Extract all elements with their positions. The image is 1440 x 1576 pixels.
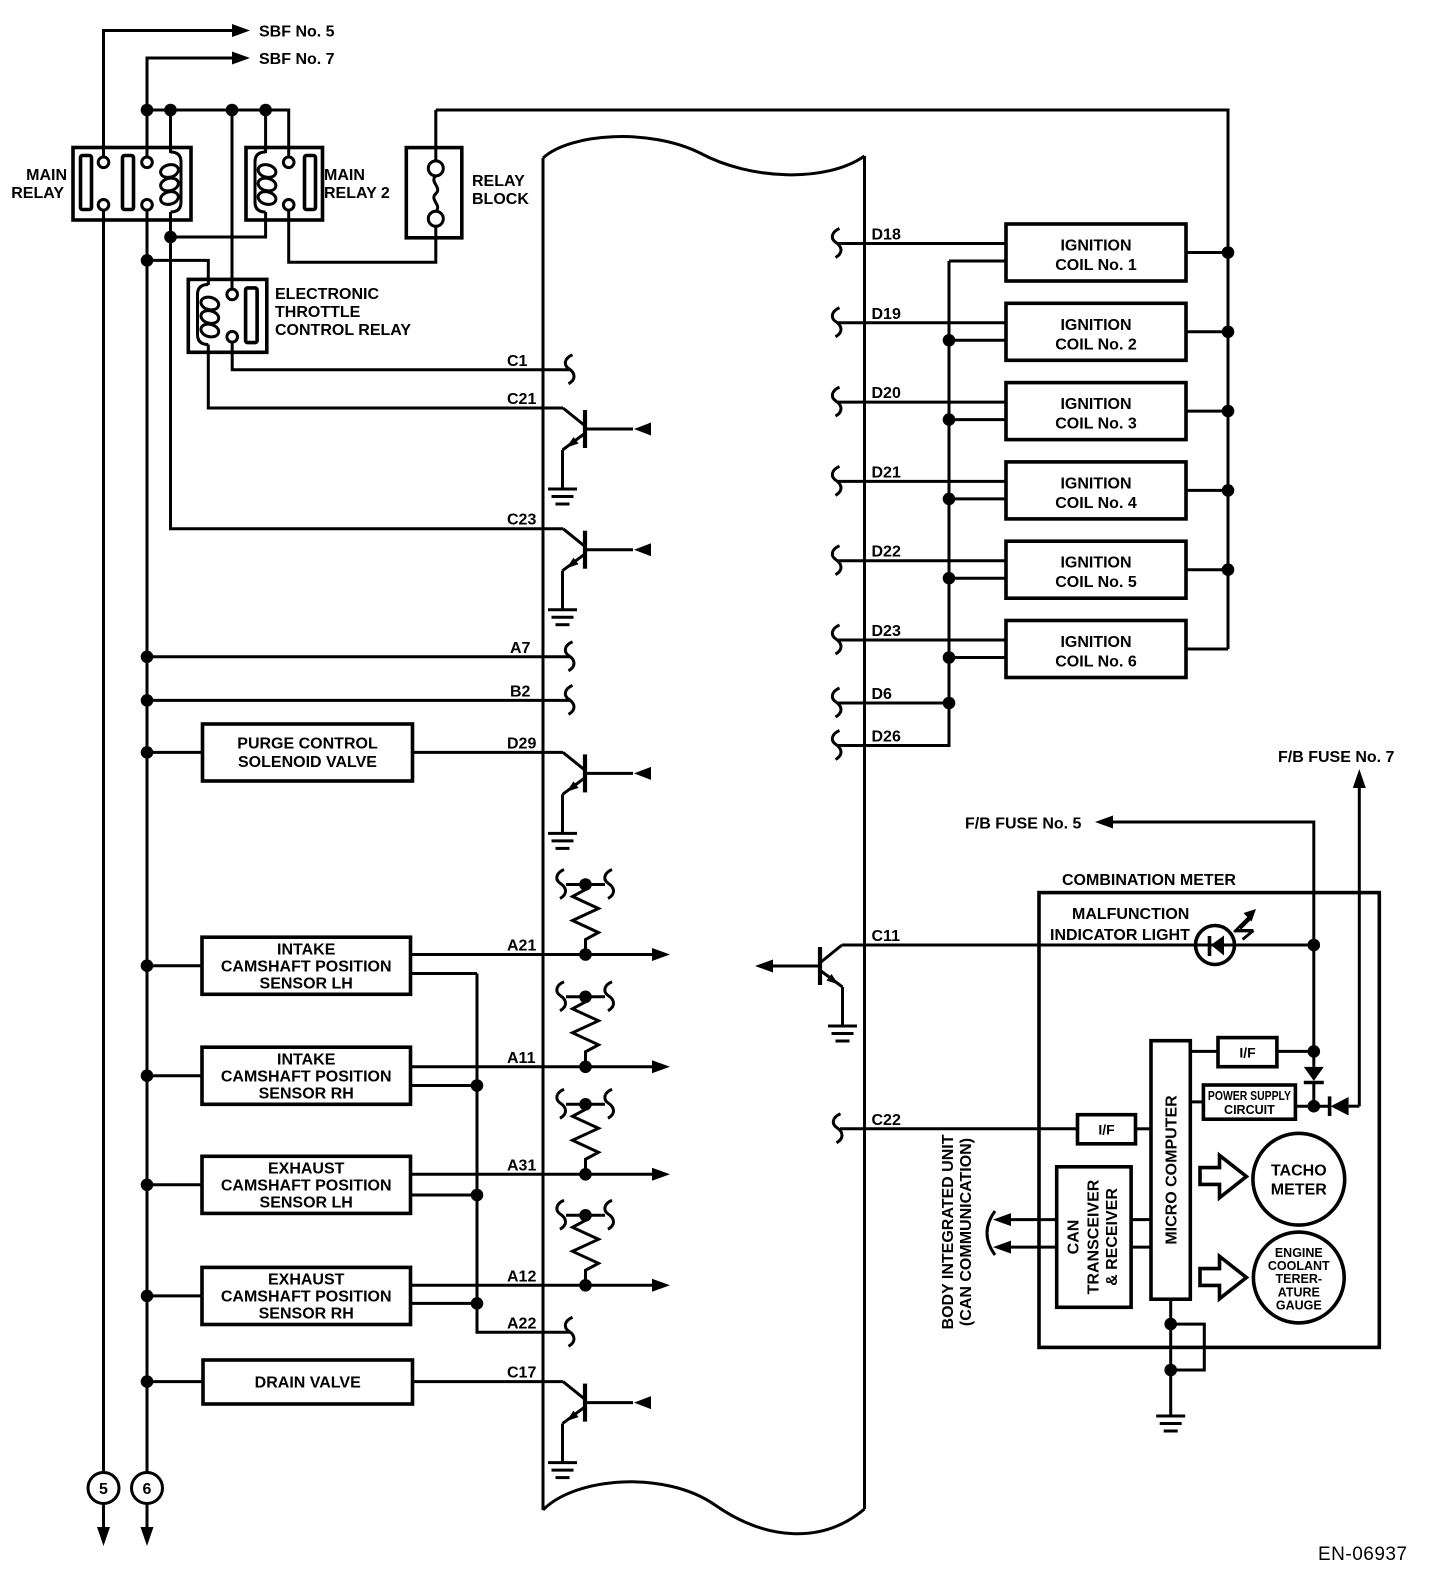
power bus 5 (left) [102, 210, 105, 1472]
connector break A22 [565, 1317, 574, 1346]
wire supply to ignition coil No. 6 [949, 656, 1006, 659]
junction main relay coil [164, 104, 177, 117]
wire main relay 2 coil feed [264, 110, 267, 153]
connector break D23 [832, 625, 841, 654]
wire supply to ignition coil No. 4 [949, 497, 1006, 500]
junction right rail [1222, 326, 1235, 339]
resistor R-A21 pull-up with connector breaks [557, 870, 614, 961]
connector break B2 [565, 685, 574, 714]
wire junction to main relay 2 coil bottom [171, 212, 266, 237]
svg-text:D23: D23 [872, 623, 901, 640]
transistor Q1 (C21 driver) [563, 408, 652, 489]
svg-text:INDICATOR LIGHT: INDICATOR LIGHT [1050, 927, 1190, 944]
main relay pin circle top-left [98, 157, 109, 168]
resistor R-A31 pull-up with connector breaks [557, 1089, 614, 1180]
ignition coil No. 3 box [1006, 383, 1186, 440]
micro computer box [1151, 1041, 1190, 1300]
wire main relay coil feed [169, 110, 172, 153]
power bus 6 [146, 210, 149, 1472]
main relay coil [159, 152, 181, 212]
ground of Q4 (C17 driver) [548, 1463, 577, 1478]
connector 6 symbol [132, 1473, 163, 1547]
svg-text:F/B FUSE No. 5: F/B FUSE No. 5 [965, 816, 1082, 833]
main relay pin circle bottom-left [98, 200, 109, 211]
wire bus6 to exhaust camshaft position sensor LH [147, 1183, 202, 1186]
wire exhaust camshaft position sensor LH ground return [411, 1194, 478, 1197]
svg-text:D22: D22 [872, 544, 901, 561]
wire ignition coil No. 4 to right rail [1186, 489, 1228, 492]
connector break D18 [832, 229, 841, 258]
diode D1 (down) [1304, 1067, 1324, 1106]
wire CAN bus out 2 [1009, 1246, 1057, 1249]
svg-text:POWER SUPPLY: POWER SUPPLY [1208, 1089, 1292, 1103]
svg-text:A7: A7 [510, 640, 531, 657]
svg-text:EXHAUST: EXHAUST [268, 1271, 345, 1288]
intake camshaft position sensor RH box [202, 1047, 411, 1104]
ignition coil No. 1 box [1006, 224, 1186, 281]
junction right rail [1222, 484, 1235, 497]
svg-text:GAUGE: GAUGE [1276, 1299, 1322, 1313]
svg-text:COIL No. 4: COIL No. 4 [1055, 495, 1137, 512]
wire exhaust camshaft position sensor RH ground return [411, 1302, 478, 1305]
svg-text:COIL No. 1: COIL No. 1 [1055, 257, 1137, 274]
wire bus6 to exhaust camshaft position sensor RH [147, 1294, 202, 1297]
relay block fuse circle top [428, 161, 443, 176]
svg-text:RELAY: RELAY [11, 185, 64, 202]
svg-text:ENGINE: ENGINE [1275, 1246, 1323, 1260]
ETC relay coil [198, 285, 221, 345]
wire CAN to micro computer 2 [1131, 1246, 1151, 1249]
svg-text:IGNITION: IGNITION [1060, 555, 1131, 572]
svg-text:SBF No. 5: SBF No. 5 [259, 24, 335, 41]
electronic throttle control relay box [188, 279, 266, 352]
svg-text:INTAKE: INTAKE [277, 1051, 336, 1068]
svg-text:MAIN: MAIN [324, 167, 365, 184]
wire main relay 2 contact to relay block [289, 210, 436, 262]
ignition coil No. 4 box [1006, 462, 1186, 519]
wire A7 [147, 655, 570, 658]
svg-text:D18: D18 [872, 227, 901, 244]
svg-text:I/F: I/F [1239, 1045, 1256, 1061]
svg-text:INTAKE: INTAKE [277, 941, 336, 958]
svg-text:COIL No. 5: COIL No. 5 [1055, 574, 1137, 591]
main relay 2 box [246, 148, 323, 221]
svg-text:ELECTRONIC: ELECTRONIC [275, 286, 379, 303]
svg-text:D26: D26 [872, 729, 901, 746]
ECM left edge [542, 158, 545, 1510]
wire top supply bus [146, 110, 289, 157]
junction bus6/ETC coil [141, 254, 154, 267]
svg-text:A31: A31 [507, 1157, 536, 1174]
ground of Q5 [828, 1026, 857, 1041]
ground of Q1 (C21 driver) [548, 489, 577, 504]
wire intake camshaft position sensor RH ground return [411, 1084, 478, 1087]
svg-text:METER: METER [1271, 1182, 1327, 1199]
wire bus6 to purge valve [147, 751, 203, 754]
combination meter ground [1156, 1416, 1185, 1431]
svg-text:PURGE CONTROL: PURGE CONTROL [237, 736, 378, 753]
wire to F/B fuse No. 7 [1358, 786, 1361, 1106]
connector break D6 [832, 688, 841, 717]
wire bus6 to drain valve [147, 1380, 203, 1383]
junction supply bus [943, 334, 956, 347]
svg-text:SENSOR RH: SENSOR RH [259, 1085, 354, 1102]
wire ignition coil No. 2 to right rail [1186, 330, 1228, 333]
resistor R-A12 pull-up with connector breaks [557, 1200, 614, 1291]
MIL flash symbol [1234, 909, 1256, 940]
wire supply to ignition coil No. 3 [949, 418, 1006, 421]
ground loop [1171, 1324, 1205, 1370]
wire D23 to ignition coil No. 6 [838, 639, 1006, 642]
wire top rail to ignition coils supply [436, 110, 1228, 649]
wire B2 [147, 699, 570, 702]
CAN brace arc [987, 1211, 995, 1255]
svg-text:CAMSHAFT POSITION: CAMSHAFT POSITION [221, 1288, 392, 1305]
main relay box [73, 148, 191, 221]
junction right rail [1222, 246, 1235, 259]
main relay contact bar 1 [81, 156, 92, 210]
ECM right edge [863, 156, 866, 1509]
svg-text:SBF No. 7: SBF No. 7 [259, 51, 335, 68]
svg-text:COIL No. 2: COIL No. 2 [1055, 336, 1137, 353]
junction power supply node [1308, 1100, 1321, 1113]
junction coil commons [164, 231, 177, 244]
ground of Q3 (D29 driver) [548, 833, 577, 848]
wire intake camshaft position sensor LH ground return [411, 972, 478, 975]
wire D18 to ignition coil No. 1 [838, 242, 1006, 245]
combination meter box [1039, 893, 1379, 1348]
power supply circuit box [1190, 1100, 1203, 1103]
svg-text:CONTROL RELAY: CONTROL RELAY [275, 322, 411, 339]
svg-text:SENSOR LH: SENSOR LH [260, 975, 353, 992]
wire supply to ignition coil No. 2 [949, 339, 1006, 342]
wire to SBF No. 7 [147, 58, 232, 157]
junction bus6/B2 [141, 694, 154, 707]
connector break C22 [833, 1114, 842, 1143]
svg-text:COIL No. 3: COIL No. 3 [1055, 416, 1137, 433]
wire bus6 to intake camshaft position sensor RH [147, 1074, 202, 1077]
wire supply to ignition coil No. 1 [949, 260, 1006, 263]
svg-text:TRANSCEIVER: TRANSCEIVER [1086, 1179, 1103, 1294]
MIL LED lamp [1196, 926, 1235, 965]
svg-text:MALFUNCTION: MALFUNCTION [1072, 906, 1189, 923]
wire ignition coil No. 5 to right rail [1186, 568, 1228, 571]
relay block fuse wavy element [434, 176, 438, 211]
svg-text:SENSOR LH: SENSOR LH [260, 1194, 353, 1211]
svg-text:C22: C22 [872, 1112, 901, 1129]
connector break D22 [832, 546, 841, 575]
svg-text:C23: C23 [507, 512, 536, 529]
main relay contact bar 2 [123, 156, 134, 210]
wire ignition coil No. 3 to right rail [1186, 410, 1228, 413]
junction bus6/purge valve [141, 746, 154, 759]
junction D6/supply bus [943, 697, 956, 710]
main relay pin circle top-right [142, 157, 153, 168]
junction supply bus [943, 413, 956, 426]
block arrow to tachometer [1200, 1155, 1246, 1198]
junction MIL/fuse5 [1308, 939, 1321, 952]
wire signal A21 [411, 953, 653, 956]
svg-text:D21: D21 [872, 464, 901, 481]
svg-text:TERER-: TERER- [1276, 1272, 1323, 1286]
svg-text:MAIN: MAIN [26, 167, 67, 184]
svg-text:EN-06937: EN-06937 [1318, 1544, 1408, 1565]
wire C23 feed down [171, 237, 564, 529]
svg-text:C21: C21 [507, 391, 536, 408]
svg-text:COOLANT: COOLANT [1268, 1259, 1330, 1273]
exhaust camshaft position sensor LH box [202, 1156, 411, 1213]
junction supply bus [943, 493, 956, 506]
svg-text:IGNITION: IGNITION [1060, 634, 1131, 651]
junction ETC relay pin [226, 104, 239, 117]
main relay 2 coil [255, 152, 277, 212]
wire to F/B fuse No. 5 [1113, 822, 1314, 945]
wire ignition coil No. 1 to right rail [1186, 251, 1228, 254]
svg-text:(CAN COMMUNICATION): (CAN COMMUNICATION) [958, 1138, 975, 1326]
tachometer gauge [1253, 1133, 1345, 1225]
svg-text:D19: D19 [872, 306, 901, 323]
connector break C1 [565, 355, 574, 384]
resistor R-A11 pull-up with connector breaks [557, 982, 614, 1073]
junction bus6/intake camshaft position sensor RH [141, 1069, 154, 1082]
wire signal A31 [411, 1173, 653, 1176]
svg-text:A11: A11 [507, 1050, 536, 1067]
svg-text:C11: C11 [872, 928, 901, 945]
wire D6 [838, 702, 949, 705]
junction right rail [1222, 405, 1235, 418]
relay block box [406, 148, 462, 238]
transistor Q3 (D29 driver) [563, 752, 652, 833]
engine coolant temperature gauge [1253, 1232, 1344, 1323]
wire D29 [413, 751, 564, 754]
svg-text:I/F: I/F [1098, 1122, 1115, 1138]
ECM torn bottom edge [543, 1482, 865, 1534]
svg-text:A22: A22 [507, 1315, 536, 1332]
junction bus6/intake camshaft position sensor LH [141, 959, 154, 972]
ignition coil No. 5 box [1006, 541, 1186, 598]
ECM torn top edge [543, 137, 865, 175]
junction bus6/exhaust camshaft position sensor LH [141, 1179, 154, 1192]
wire signal A11 [411, 1065, 653, 1068]
svg-text:B2: B2 [510, 683, 531, 700]
drain valve box [203, 1360, 413, 1404]
svg-text:& RECEIVER: & RECEIVER [1104, 1188, 1121, 1286]
wire ignition coil No. 6 to right rail [1186, 648, 1228, 651]
svg-text:COIL No. 6: COIL No. 6 [1055, 654, 1137, 671]
wire D19 to ignition coil No. 2 [838, 321, 1006, 324]
ground of Q2 (C23 driver) [548, 610, 577, 625]
main relay pin circle bottom-right [142, 200, 153, 211]
svg-text:F/B FUSE No. 7: F/B FUSE No. 7 [1278, 749, 1395, 766]
svg-text:CAN: CAN [1066, 1220, 1083, 1255]
svg-text:IGNITION: IGNITION [1060, 238, 1131, 255]
svg-text:COMBINATION METER: COMBINATION METER [1062, 872, 1236, 889]
svg-text:CAMSHAFT POSITION: CAMSHAFT POSITION [221, 1177, 392, 1194]
wire D22 to ignition coil No. 5 [838, 559, 1006, 562]
svg-text:SENSOR RH: SENSOR RH [259, 1305, 354, 1322]
connector break D26 [832, 731, 841, 760]
svg-text:EXHAUST: EXHAUST [268, 1160, 345, 1177]
junction supply bus [943, 651, 956, 664]
junction supply bus [943, 572, 956, 585]
block arrow to coolant gauge [1200, 1256, 1246, 1299]
junction bus/SBF7 line [141, 104, 154, 117]
svg-text:BODY INTEGRATED UNIT: BODY INTEGRATED UNIT [940, 1134, 957, 1329]
main relay 2 pin circle top [283, 157, 294, 168]
svg-text:D6: D6 [872, 686, 893, 703]
junction bus6/exhaust camshaft position sensor RH [141, 1290, 154, 1303]
junction return bus [471, 1297, 484, 1310]
svg-text:CAMSHAFT POSITION: CAMSHAFT POSITION [221, 958, 392, 975]
ignition coil No. 6 box [1006, 621, 1186, 678]
svg-text:RELAY: RELAY [472, 173, 525, 190]
wire D21 to ignition coil No. 4 [838, 480, 1006, 483]
wire bus6 to intake camshaft position sensor LH [147, 964, 202, 967]
ETC relay pin circle top [227, 289, 238, 300]
junction main relay 2 coil [259, 104, 272, 117]
wire CAN to micro computer 1 [1131, 1218, 1151, 1221]
svg-text:D29: D29 [507, 735, 536, 752]
wire supply to ignition coil No. 5 [949, 577, 1006, 580]
junction return bus [471, 1189, 484, 1202]
svg-text:CAMSHAFT POSITION: CAMSHAFT POSITION [221, 1068, 392, 1085]
wire ignition coil supply bus [948, 261, 951, 746]
purge control solenoid valve box [203, 724, 413, 781]
svg-text:THROTTLE: THROTTLE [275, 304, 361, 321]
junction ground loop top [1164, 1318, 1177, 1331]
connector break D20 [832, 387, 841, 416]
wire micro computer to ground [1169, 1299, 1172, 1416]
wire main relay coil bottom to junction [169, 212, 172, 237]
svg-text:D20: D20 [872, 385, 901, 402]
main relay 2 contact bar [305, 156, 316, 210]
CAN transceiver & receiver box [1057, 1167, 1131, 1308]
svg-text:6: 6 [143, 1481, 152, 1498]
svg-text:C1: C1 [507, 353, 528, 370]
main relay 2 pin circle bottom [283, 200, 294, 211]
svg-text:IGNITION: IGNITION [1060, 475, 1131, 492]
junction bus6/drain valve [141, 1375, 154, 1388]
relay block fuse circle bottom [428, 211, 443, 226]
wire C22 [840, 1127, 1078, 1130]
wire D20 to ignition coil No. 3 [838, 401, 1006, 404]
I/F box (C22) [1078, 1115, 1136, 1144]
svg-text:CIRCUIT: CIRCUIT [1224, 1103, 1275, 1117]
svg-text:BLOCK: BLOCK [472, 191, 529, 208]
svg-text:A21: A21 [507, 938, 536, 955]
svg-text:IGNITION: IGNITION [1060, 317, 1131, 334]
connector break D19 [832, 308, 841, 337]
svg-text:DRAIN VALVE: DRAIN VALVE [255, 1375, 361, 1392]
intake camshaft position sensor LH box [202, 937, 411, 994]
svg-text:IGNITION: IGNITION [1060, 396, 1131, 413]
wire C1 from ETC relay contact [232, 342, 570, 370]
wire signal A12 [411, 1284, 653, 1287]
wire C11 to MIL [842, 944, 1314, 947]
svg-text:MICRO COMPUTER: MICRO COMPUTER [1163, 1095, 1180, 1245]
ETC relay pin circle bottom [227, 332, 238, 343]
junction ground loop bottom [1164, 1364, 1177, 1377]
svg-text:RELAY 2: RELAY 2 [324, 185, 390, 202]
connector break D21 [832, 466, 841, 495]
svg-text:ATURE: ATURE [1278, 1285, 1320, 1299]
svg-text:SOLENOID VALVE: SOLENOID VALVE [238, 754, 377, 771]
svg-text:C17: C17 [507, 1365, 536, 1382]
ignition coil No. 2 box [1006, 303, 1186, 360]
ETC relay contact bar [246, 288, 258, 343]
wire sensor ground return bus [477, 974, 570, 1333]
diode D2 (left) [1314, 1096, 1360, 1116]
junction bus6/A7 [141, 651, 154, 664]
exhaust camshaft position sensor RH box [202, 1267, 411, 1324]
I/F box (MIL drive) [1190, 1050, 1218, 1053]
wire CAN bus out 1 [1009, 1218, 1057, 1221]
connector 5 symbol [88, 1473, 119, 1547]
svg-text:A12: A12 [507, 1268, 536, 1285]
junction I/F/diode [1308, 1045, 1321, 1058]
transistor Q4 (C17 driver) [563, 1382, 652, 1463]
junction right rail [1222, 563, 1235, 576]
wire fuse5 branch down [1312, 945, 1315, 1067]
connector break A7 [565, 642, 574, 671]
wire C21 from ETC relay coil [208, 345, 563, 409]
transistor Q2 (C23 driver) [563, 529, 652, 610]
wire relay block to top rail [434, 110, 437, 161]
svg-text:TACHO: TACHO [1271, 1163, 1327, 1180]
svg-text:5: 5 [99, 1481, 108, 1498]
wire ETC relay coil feed from bus 6 [147, 260, 208, 285]
wire to SBF No. 5 [104, 31, 233, 158]
wire D26 [838, 740, 949, 746]
junction return bus [471, 1079, 484, 1092]
transistor Q5 (C11 driver, mirrored) [755, 945, 843, 1026]
wire C17 [413, 1380, 564, 1383]
wire ETC relay pin feed [231, 110, 234, 289]
